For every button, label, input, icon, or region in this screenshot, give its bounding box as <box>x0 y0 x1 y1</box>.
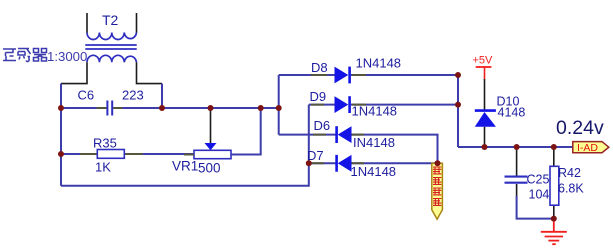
svg-text:VR1: VR1 <box>172 159 198 174</box>
potentiometer VR1 <box>194 150 231 158</box>
diode D6 <box>337 126 352 143</box>
svg-text:1K: 1K <box>95 160 111 175</box>
T2 primary winding <box>87 33 137 40</box>
svg-text:500: 500 <box>198 161 221 176</box>
node rail-left <box>58 105 64 111</box>
svg-text:T2: T2 <box>102 12 119 28</box>
svg-text:D6: D6 <box>314 118 331 133</box>
resistor R35 row wires <box>61 153 194 155</box>
port sample tag <box>432 163 443 219</box>
wire left column <box>60 108 62 186</box>
svg-text:D8: D8 <box>311 60 328 75</box>
wire right vertical from T2 to rail <box>161 84 163 108</box>
resistor R35 pins <box>80 153 143 155</box>
svg-text:D9: D9 <box>310 89 327 104</box>
wire bottom rail <box>61 105 309 186</box>
ground <box>541 219 567 245</box>
T2 core <box>85 45 136 49</box>
label 互感器 1:3000 <box>3 49 47 62</box>
svg-text:4148: 4148 <box>498 106 526 120</box>
node rail-VR1 <box>258 105 264 111</box>
capacitor C25 pins <box>516 147 518 196</box>
resistor R35 <box>97 150 124 159</box>
wire D8 left vertical <box>278 75 280 135</box>
diode D7 <box>337 155 352 172</box>
diode D7 pins <box>311 162 364 164</box>
diode D9 <box>335 96 350 113</box>
diode D8 <box>335 67 350 84</box>
wire main rail <box>61 107 279 109</box>
node D7-tag <box>435 160 441 166</box>
svg-text:1N4148: 1N4148 <box>356 56 402 71</box>
wire C25 bottom <box>517 196 554 219</box>
resistor R42 <box>550 166 559 205</box>
svg-text:0.24v: 0.24v <box>556 117 604 139</box>
T2 secondary winding <box>87 55 137 62</box>
capacitor C6 pins <box>97 107 123 109</box>
resistor R42 pins <box>553 147 555 219</box>
svg-text:6.8K: 6.8K <box>558 182 584 196</box>
T2 bottom lead right <box>137 62 163 83</box>
svg-text:+5V: +5V <box>473 55 494 67</box>
svg-text:1:3000: 1:3000 <box>47 49 87 64</box>
wire D9 row <box>309 104 458 106</box>
T2 top lead left <box>86 13 88 33</box>
svg-text:R42: R42 <box>558 166 581 180</box>
node D9-right <box>455 102 461 108</box>
svg-text:IN4148: IN4148 <box>353 135 395 150</box>
port I-AD <box>573 142 609 154</box>
wire right vertical D8 to output rail <box>457 75 459 147</box>
svg-text:C25: C25 <box>527 173 550 187</box>
diode D6 pins <box>313 134 364 136</box>
potentiometer VR1 pins <box>184 154 241 156</box>
node rail-T2right <box>159 105 165 111</box>
node D7-left <box>306 160 312 166</box>
svg-text:104: 104 <box>529 188 550 202</box>
svg-text:R35: R35 <box>93 136 117 151</box>
node R42-top <box>551 144 557 150</box>
node D8-right <box>455 72 461 78</box>
wire left vertical from T2 to rail <box>60 84 62 108</box>
svg-text:1N4148: 1N4148 <box>352 104 398 119</box>
diode D9 pins <box>311 104 366 106</box>
wire VR1 right to rail <box>231 108 261 155</box>
wire D8 row <box>279 74 458 76</box>
node rail-wiper <box>208 105 214 111</box>
node rail-D8 <box>276 105 282 111</box>
diode D8 pins <box>311 74 366 76</box>
potentiometer VR1 wiper wire <box>210 108 212 143</box>
node R35-left <box>58 151 64 157</box>
svg-text:C6: C6 <box>78 88 95 103</box>
node D10-anode <box>482 144 488 150</box>
power +5V <box>473 55 494 80</box>
node C25-top <box>514 144 520 150</box>
potentiometer VR1 wiper arrow <box>205 143 217 150</box>
wire output rail <box>458 146 573 148</box>
transformer T2 <box>61 13 162 84</box>
T2 top lead right <box>136 13 138 33</box>
capacitor C6 <box>107 101 112 116</box>
svg-text:I-AD: I-AD <box>577 142 598 154</box>
T2 bottom lead left <box>61 62 87 83</box>
diode D10 pins <box>484 79 486 147</box>
wire D6 row <box>279 135 438 164</box>
wire D7 row <box>309 162 438 164</box>
node ground <box>551 216 557 222</box>
svg-text:1N4148: 1N4148 <box>351 164 397 179</box>
capacitor C25 <box>505 177 528 183</box>
diode D10 <box>475 111 496 127</box>
svg-text:223: 223 <box>122 88 144 103</box>
